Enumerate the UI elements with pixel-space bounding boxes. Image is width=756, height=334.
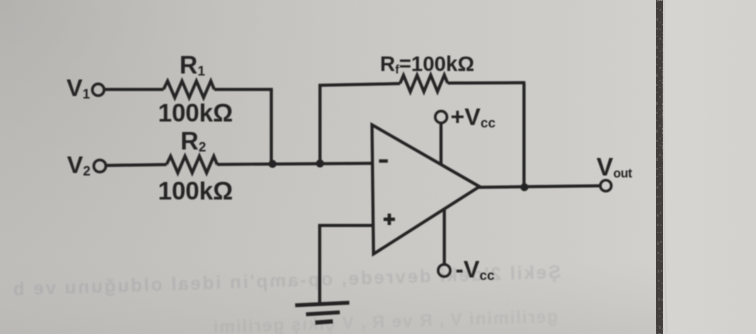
wire to ground [318, 225, 321, 303]
bleed-through mirrored text line 1 [11, 261, 561, 299]
ground bar 2 [306, 312, 340, 314]
op-amp U1 triangle [372, 125, 480, 254]
resistor R1 [164, 81, 215, 98]
node A junction dot [269, 160, 277, 168]
wire R1 to node A [214, 88, 273, 91]
wire node A vertical [270, 89, 273, 164]
resistor Rf [400, 75, 448, 92]
terminal -Vcc [438, 264, 450, 276]
ground bar 1 [295, 303, 349, 306]
ground bar 3 [315, 321, 333, 322]
wire feedback top horizontal right [448, 81, 526, 85]
node B junction dot (feedback tap) [316, 160, 324, 168]
wire feedback right vertical [522, 83, 525, 188]
wire feedback left vertical [318, 85, 321, 163]
bleed-through mirrored text line 2 [212, 306, 558, 334]
terminal +Vcc [435, 111, 447, 123]
op-amp plus sign [384, 218, 395, 221]
resistor R2 [167, 156, 218, 173]
wire op-amp output to Vout [478, 186, 600, 188]
node C output junction dot [520, 183, 528, 191]
wire +Vcc to op-amp [439, 123, 442, 164]
wire feedback top horizontal left [319, 84, 401, 86]
wire R2 to op-amp inverting input [217, 163, 373, 164]
wire V1 to R1 [105, 88, 164, 91]
input terminal V2 [94, 160, 106, 172]
wire -Vcc to op-amp [443, 209, 446, 264]
wire op-amp noninverting input [318, 224, 373, 227]
input terminal V1 [92, 84, 104, 96]
book page edge dark strip [657, 0, 667, 334]
op-amp minus sign [379, 159, 388, 162]
output terminal Vout [600, 180, 611, 191]
wire V2 to R2 [106, 163, 166, 167]
